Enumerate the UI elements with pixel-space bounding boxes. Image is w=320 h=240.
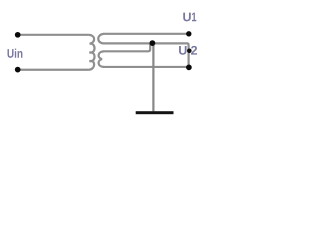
wire center tap (winding1 bottom) to junction and down to U2 xyxy=(103,43,188,67)
wire secondary top to U1 xyxy=(103,33,189,35)
wire primary bottom lead (Uin- to T1) xyxy=(18,69,89,71)
label U2 xyxy=(179,46,197,55)
node U1 terminal xyxy=(186,31,191,36)
transformer T1 primary winding xyxy=(89,35,95,70)
label Uin xyxy=(8,49,23,58)
node Uin- terminal xyxy=(15,67,21,73)
node U2 pin junction on wire xyxy=(187,49,192,54)
wire junction to ground xyxy=(152,44,154,112)
node junction (center tap) xyxy=(150,40,156,46)
wire primary top lead (Uin+ to T1) xyxy=(18,34,89,36)
label U1 xyxy=(183,13,196,22)
wire winding2 bottom to U2 xyxy=(103,66,189,68)
transformer T1 secondary winding 1 (top) xyxy=(98,34,103,44)
transformer T1 secondary winding 2 (bottom) xyxy=(99,51,104,67)
node U2 terminal xyxy=(186,65,192,71)
ground symbol xyxy=(136,111,174,114)
wire winding2 top to junction riser xyxy=(103,44,150,52)
node Uin+ terminal xyxy=(15,32,21,38)
